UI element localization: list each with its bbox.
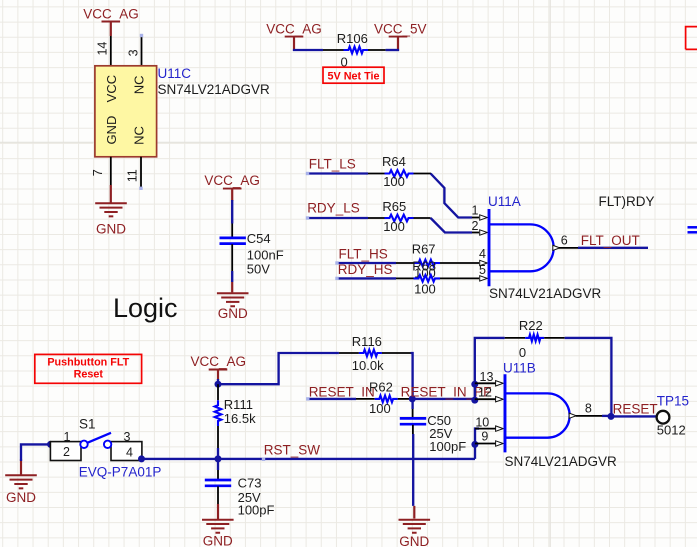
- svg-text:VCC: VCC: [104, 75, 119, 102]
- svg-text:10.0k: 10.0k: [352, 358, 384, 373]
- svg-text:R68: R68: [412, 258, 436, 273]
- svg-text:VCC_AG: VCC_AG: [83, 6, 139, 21]
- svg-text:4: 4: [479, 247, 486, 261]
- svg-text:FLT_HS: FLT_HS: [339, 247, 388, 262]
- svg-text:R111: R111: [224, 397, 253, 412]
- svg-text:5012: 5012: [657, 423, 686, 438]
- svg-text:SN74LV21ADGVR: SN74LV21ADGVR: [505, 454, 618, 469]
- svg-text:TP15: TP15: [657, 394, 689, 409]
- svg-text:16.5k: 16.5k: [224, 411, 256, 426]
- svg-text:SN74LV21ADGVR: SN74LV21ADGVR: [158, 82, 271, 97]
- svg-text:RST_SW: RST_SW: [264, 443, 321, 458]
- svg-text:FLT)RDY: FLT)RDY: [599, 194, 655, 209]
- svg-text:3: 3: [126, 49, 140, 56]
- svg-text:6: 6: [561, 234, 568, 248]
- svg-text:U11B: U11B: [503, 360, 536, 375]
- svg-text:R106: R106: [337, 31, 368, 46]
- svg-text:50V: 50V: [247, 261, 270, 276]
- svg-text:5: 5: [479, 263, 486, 277]
- svg-text:S1: S1: [79, 417, 96, 432]
- svg-text:Pushbutton FLT: Pushbutton FLT: [47, 356, 129, 368]
- svg-text:2: 2: [472, 219, 479, 233]
- svg-text:FLT_LS: FLT_LS: [309, 157, 356, 172]
- svg-text:100nF: 100nF: [247, 247, 284, 262]
- svg-text:C73: C73: [238, 475, 262, 490]
- svg-text:0: 0: [519, 345, 526, 360]
- svg-text:GND: GND: [218, 306, 248, 321]
- svg-text:C54: C54: [247, 231, 271, 246]
- svg-text:RESET: RESET: [613, 401, 658, 416]
- svg-text:GND: GND: [203, 534, 233, 547]
- svg-text:R67: R67: [412, 241, 436, 256]
- svg-text:R116: R116: [352, 334, 382, 349]
- svg-text:GND: GND: [96, 222, 126, 237]
- svg-text:8: 8: [585, 401, 592, 415]
- svg-text:100pF: 100pF: [429, 439, 466, 454]
- svg-text:NC: NC: [132, 126, 147, 145]
- svg-text:VCC_5V: VCC_5V: [374, 21, 427, 36]
- svg-text:GND: GND: [6, 490, 36, 505]
- svg-text:GND: GND: [399, 534, 429, 547]
- svg-text:VCC_AG: VCC_AG: [266, 21, 322, 36]
- svg-text:EVQ-P7A01P: EVQ-P7A01P: [79, 464, 162, 479]
- svg-text:VCC_AG: VCC_AG: [191, 354, 247, 369]
- svg-text:1: 1: [472, 204, 479, 218]
- svg-text:100: 100: [383, 174, 405, 189]
- svg-text:11: 11: [126, 169, 140, 182]
- svg-text:100: 100: [383, 219, 405, 234]
- svg-text:13: 13: [480, 370, 494, 384]
- svg-text:100pF: 100pF: [238, 503, 275, 518]
- svg-text:R22: R22: [519, 318, 543, 333]
- svg-text:GND: GND: [104, 116, 119, 145]
- svg-text:VCC_AG: VCC_AG: [204, 173, 260, 188]
- svg-text:RDY_LS: RDY_LS: [307, 200, 360, 215]
- svg-text:5V Net Tie: 5V Net Tie: [327, 70, 379, 82]
- svg-text:RDY_HS: RDY_HS: [338, 262, 393, 277]
- svg-text:RESET_IN: RESET_IN: [309, 385, 375, 400]
- svg-text:R62: R62: [369, 380, 393, 395]
- svg-text:U11A: U11A: [488, 194, 521, 209]
- svg-text:NC: NC: [132, 76, 147, 95]
- svg-text:12: 12: [478, 385, 492, 399]
- svg-text:9: 9: [481, 429, 488, 443]
- svg-text:7: 7: [91, 169, 105, 176]
- svg-text:U11C: U11C: [158, 66, 192, 81]
- svg-text:SN74LV21ADGVR: SN74LV21ADGVR: [489, 286, 602, 301]
- svg-text:1: 1: [64, 430, 71, 444]
- svg-text:Logic: Logic: [113, 293, 178, 323]
- svg-text:10: 10: [475, 415, 489, 429]
- svg-text:100: 100: [414, 282, 436, 297]
- svg-text:R65: R65: [382, 199, 406, 214]
- svg-text:4: 4: [126, 446, 133, 460]
- svg-text:R64: R64: [382, 154, 406, 169]
- svg-text:14: 14: [96, 42, 110, 56]
- svg-text:100: 100: [369, 401, 391, 416]
- svg-text:2: 2: [63, 445, 70, 459]
- svg-text:Reset: Reset: [74, 368, 104, 380]
- svg-text:3: 3: [124, 430, 131, 444]
- svg-text:FLT_OUT: FLT_OUT: [581, 233, 640, 248]
